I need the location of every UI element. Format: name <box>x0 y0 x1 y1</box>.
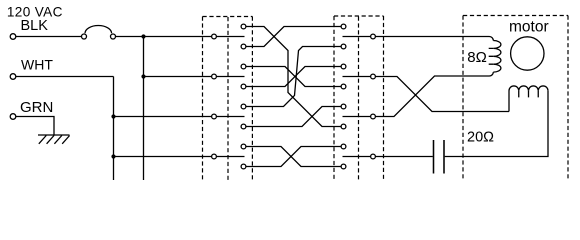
P1 socket L8 <box>241 164 246 169</box>
P2 socket R1 <box>341 24 346 29</box>
motor body M1 <box>511 37 544 70</box>
connector P2 dashed housing <box>334 16 384 180</box>
P1 socket L5 <box>241 104 246 109</box>
P1 socket L7 <box>241 144 246 149</box>
wire L1 to R6 crossover <box>246 27 341 127</box>
P1 socket L2 <box>241 44 246 49</box>
capacitor C1 <box>434 140 445 174</box>
wire out1 to 8ohm winding <box>375 37 493 41</box>
P1 socket L6 <box>241 124 246 129</box>
wire L3 to R4 crossover <box>246 67 341 87</box>
wire WHT terminal to bus <box>16 76 114 78</box>
inductor main winding inner ticks <box>519 91 539 98</box>
wire L2 to R1 crossover <box>246 27 341 47</box>
P2 pin out2 contact <box>371 74 376 79</box>
wire row4 tap to connector <box>114 156 212 158</box>
P1 socket L3 <box>241 64 246 69</box>
P2 socket R7 <box>341 144 346 149</box>
inductor main winding <box>509 86 548 112</box>
wire L4 to R3 crossover <box>246 67 341 87</box>
P2 socket R5 <box>341 104 346 109</box>
wire out2 to main winding crossover <box>375 77 509 112</box>
P2 pin out4 contact <box>371 154 376 159</box>
inductor 8 ohm inner ticks <box>489 48 494 64</box>
wire BLK terminal to switch <box>16 36 81 38</box>
node WHT bus row3 junction <box>111 114 115 118</box>
svg-text:20Ω: 20Ω <box>467 129 494 145</box>
wire L8 to R7 crossover <box>246 147 341 167</box>
wire L6 to R5 crossover <box>246 107 341 127</box>
P2 socket R3 <box>341 64 346 69</box>
node BLK bus row2 junction <box>141 74 145 78</box>
connector P1 dashed housing <box>203 17 253 181</box>
P2 socket R2 <box>341 44 346 49</box>
node WHT bus row4 junction <box>111 154 115 158</box>
wire row2 tap to connector <box>144 76 212 78</box>
P1 pin row1 prong <box>216 36 244 38</box>
svg-text:BLK: BLK <box>21 18 49 34</box>
node BLK bus top junction <box>141 34 145 38</box>
P1 socket L4 <box>241 84 246 89</box>
ground <box>38 135 70 144</box>
P2 pin out1 prong <box>343 36 371 38</box>
P2 socket R4 <box>341 84 346 89</box>
wire out4 to capacitor <box>375 156 432 158</box>
svg-text:8Ω: 8Ω <box>467 49 487 66</box>
P2 pin out1 contact <box>371 34 376 39</box>
wire L5 to R2 crossover <box>246 47 341 107</box>
P2 socket R6 <box>341 124 346 129</box>
wire out3 to 8ohm winding bottom crossover <box>375 72 493 116</box>
switch S1 right contact <box>111 34 116 39</box>
terminal GRN <box>10 114 16 120</box>
P1 pin row4 prong <box>216 156 244 158</box>
svg-text:WHT: WHT <box>21 57 53 73</box>
svg-text:motor: motor <box>509 19 549 36</box>
P1 pin row1 contact <box>212 34 217 39</box>
wire BLK switch to connector row1 <box>116 36 212 38</box>
wire GRN to ground <box>16 117 54 136</box>
P2 pin out3 prong <box>343 116 371 118</box>
P2 pin out4 prong <box>343 156 371 158</box>
wire BLK bus vertical <box>143 37 145 181</box>
P1 pin row2 prong <box>216 76 244 78</box>
wire L7 to R8 crossover <box>246 147 341 167</box>
motor dashed housing <box>463 16 568 181</box>
P1 socket L1 <box>241 24 246 29</box>
P1 pin row3 prong <box>216 116 244 118</box>
terminal WHT <box>10 74 16 80</box>
svg-text:GRN: GRN <box>20 99 53 116</box>
P1 pin row3 contact <box>212 114 217 119</box>
P2 pin out3 contact <box>371 114 376 119</box>
P1 pin row4 contact <box>212 154 217 159</box>
wire WHT bus vertical <box>113 77 115 181</box>
switch S1 arc <box>85 25 112 33</box>
inductor 8 ohm winding <box>493 41 501 73</box>
wire row3 tap to connector <box>114 116 212 118</box>
wire capacitor to main winding <box>445 91 548 157</box>
P2 socket R8 <box>341 164 346 169</box>
switch S1 left contact <box>82 34 87 39</box>
P1 pin row2 contact <box>212 74 217 79</box>
terminal BLK <box>10 34 16 40</box>
P2 pin out2 prong <box>343 76 371 78</box>
